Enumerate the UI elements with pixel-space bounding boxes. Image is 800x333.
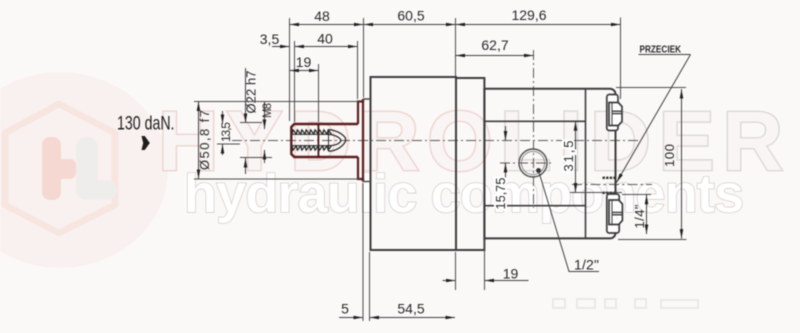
svg-text:31,5: 31,5 [561, 141, 576, 172]
port circle 1/2 [519, 149, 547, 177]
M8 thread bottom band [292, 146, 331, 151]
svg-text:19: 19 [296, 54, 312, 70]
svg-text:60,5: 60,5 [397, 8, 424, 24]
dimension 15,75 [505, 126, 507, 141]
extension joint bottom x=456 [455, 252, 457, 290]
M8 thread drill cone [329, 130, 346, 152]
svg-text:3,5: 3,5 [260, 31, 280, 47]
dimension 1/4" [646, 195, 648, 234]
svg-text:5: 5 [341, 301, 349, 317]
extension y=192.5 [570, 192, 622, 194]
dimension 5 [339, 317, 363, 319]
mid section [456, 78, 484, 250]
svg-text:48: 48 [314, 8, 330, 24]
bottom fitting plate [607, 194, 619, 233]
extension 100 top [616, 87, 686, 89]
main centerline [232, 140, 640, 142]
extension 1/4 top [622, 194, 651, 196]
extension for 13,5 [217, 143, 240, 145]
leak hole hidden line bottom [603, 192, 616, 194]
extension line pilot face x=363 upper [363, 18, 365, 98]
shaft [291, 124, 358, 157]
svg-text:130 daN.: 130 daN. [117, 114, 175, 135]
svg-text:1/2": 1/2" [574, 257, 599, 273]
svg-text:19: 19 [503, 266, 519, 282]
top fitting nut [609, 103, 622, 126]
svg-text:100: 100 [662, 144, 677, 167]
internal line top [484, 120, 585, 122]
pilot ring step [363, 99, 371, 182]
rear body [484, 89, 615, 239]
svg-text:1/4": 1/4" [632, 204, 647, 228]
dimension 48 [290, 24, 364, 26]
dimension 60,5 [364, 24, 456, 26]
leader 1/2" [539, 171, 570, 272]
force arrow [142, 136, 150, 150]
dimension 19 top [290, 70, 319, 72]
extension line chamfer x=294.5 [294, 41, 296, 122]
svg-text:40: 40 [317, 31, 333, 47]
svg-text:62,7: 62,7 [481, 37, 508, 53]
dimension 54,5 [370, 317, 456, 319]
shaft top extension for Ø22 [240, 122, 262, 124]
extension line fitting end x=621 [620, 18, 622, 100]
leak hole hidden line top [603, 177, 616, 179]
dimension Ø50,8 f7 [198, 102, 200, 180]
dimension 31,5 [575, 121, 577, 192]
watermark mini logo bottom right [553, 299, 698, 308]
shaft thread groove line [317, 124, 319, 157]
extension 100 bottom [618, 239, 687, 241]
internal line bottom [484, 205, 585, 207]
dimension 129,6 [456, 24, 621, 26]
extension line shaft tip x=289.5 [289, 18, 291, 121]
dimension 100 [681, 89, 683, 239]
svg-text:129,6: 129,6 [511, 7, 546, 23]
dimension 19 bottom [443, 280, 456, 282]
svg-text:Ø50,8 f7: Ø50,8 f7 [197, 110, 212, 170]
watermark monogram H [42, 137, 61, 200]
pilot Ø50.8 [358, 99, 363, 182]
watermark monogram L [76, 137, 117, 200]
extension line flange joint x=456 [455, 18, 457, 76]
svg-text:PRZECIEK: PRZECIEK [640, 45, 682, 56]
shaft bottom extension for Ø22 [240, 157, 272, 159]
bottom fitting nut [609, 200, 622, 225]
leak port centerline [572, 184, 652, 186]
dimension 62,7 [456, 55, 534, 57]
flange body [371, 77, 457, 250]
extension line shaft end x=358 [357, 41, 359, 99]
dimension 3,5 [272, 46, 290, 48]
watermark pink veil [0, 72, 168, 268]
dimension 13,5 [222, 111, 224, 124]
top fitting plate [607, 95, 618, 131]
dimension Ø22 h7 [245, 68, 247, 123]
extension flange face bottom x=369.5 [369, 252, 371, 321]
svg-text:Ø22 h7: Ø22 h7 [244, 71, 259, 114]
extension line thread end x=318.4 [318, 64, 320, 122]
port leader dot [536, 168, 541, 173]
svg-text:hydraulic components: hydraulic components [184, 164, 744, 224]
svg-text:M8: M8 [262, 103, 274, 118]
dimension M8 [264, 102, 266, 130]
extension pilot face bottom x=363 [362, 183, 364, 321]
extension rear joint bottom x=484.4 [484, 241, 486, 291]
svg-text:54,5: 54,5 [397, 301, 424, 317]
svg-text:13,5: 13,5 [219, 122, 233, 142]
M8 thread inner lines [292, 133, 330, 135]
port vertical centerline [533, 50, 535, 208]
extension lines for Ø50,8 [194, 101, 360, 103]
svg-text:15,75: 15,75 [493, 178, 508, 210]
watermark hexagon logo [5, 104, 115, 233]
port horizontal centerline [500, 162, 553, 164]
rear cover joint line [585, 89, 587, 239]
M8 thread top band [292, 130, 331, 135]
dimension 40 [295, 46, 358, 48]
thread band left edge [328, 130, 330, 152]
